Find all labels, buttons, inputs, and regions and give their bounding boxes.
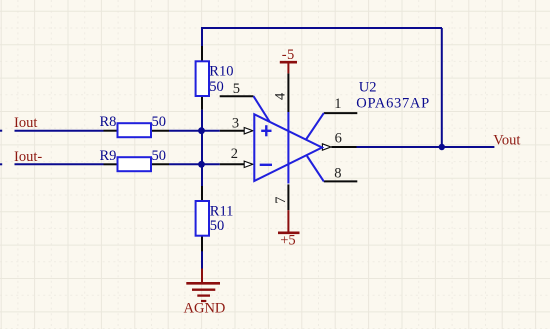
svg-text:AGND: AGND [184, 301, 226, 317]
svg-text:Vout: Vout [493, 132, 520, 148]
svg-text:+5: +5 [280, 233, 295, 249]
svg-text:50: 50 [152, 114, 167, 130]
svg-text:4: 4 [273, 92, 289, 100]
svg-text:8: 8 [334, 165, 341, 181]
svg-text:R9: R9 [100, 148, 117, 164]
svg-text:50: 50 [209, 79, 224, 95]
svg-text:3: 3 [232, 115, 239, 131]
svg-text:5: 5 [233, 81, 240, 97]
svg-text:-5: -5 [282, 47, 295, 63]
svg-text:R10: R10 [209, 64, 233, 80]
svg-text:7: 7 [273, 197, 289, 204]
svg-text:6: 6 [335, 131, 342, 147]
svg-text:2: 2 [231, 146, 238, 162]
svg-text:OPA637AP: OPA637AP [356, 96, 430, 112]
svg-text:U2: U2 [359, 79, 377, 95]
svg-text:50: 50 [152, 148, 167, 164]
svg-text:Iout: Iout [14, 115, 37, 131]
svg-text:1: 1 [334, 96, 341, 112]
svg-text:R8: R8 [100, 114, 117, 130]
svg-text:50: 50 [210, 218, 225, 234]
svg-text:Iout-: Iout- [14, 149, 42, 165]
